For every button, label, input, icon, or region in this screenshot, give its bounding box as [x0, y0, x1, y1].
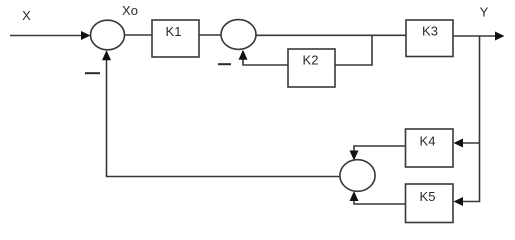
wire branch to K4 — [462, 142, 480, 144]
wire K1 to S2 — [199, 34, 221, 36]
wire input X — [10, 35, 81, 37]
arrowhead K4 into S3 — [350, 151, 359, 161]
wire S1 to K1 — [125, 34, 153, 36]
svg-text:X: X — [22, 8, 31, 23]
block K5 — [406, 184, 454, 223]
wire K5 to S3 — [354, 194, 406, 205]
wire tap to K2 — [335, 35, 372, 65]
svg-text:K1: K1 — [166, 24, 182, 39]
wire S3 to S1 feedback — [107, 53, 341, 177]
svg-text:Xo: Xo — [122, 3, 138, 18]
summing junction S3 — [340, 160, 375, 192]
arrowhead feedback into S1 — [102, 50, 111, 60]
arrowhead output Y — [495, 32, 505, 41]
block K3 — [406, 20, 453, 57]
summing junction S2 — [221, 20, 256, 50]
wire takeoff down to K5 — [462, 36, 480, 202]
svg-text:Y: Y — [480, 5, 489, 20]
wire K2 to S2 — [243, 52, 288, 65]
svg-text:K3: K3 — [422, 24, 438, 39]
arrowhead into S1 — [81, 31, 91, 40]
wire S2 to K3 — [256, 34, 406, 36]
block K4 — [406, 129, 454, 167]
arrowhead K2 into S2 — [239, 50, 248, 60]
minus sign at S2 — [218, 63, 231, 65]
summing junction S1 — [91, 20, 125, 50]
block K1 — [152, 20, 199, 57]
arrowhead into K4 — [454, 139, 464, 148]
wire K3 to output Y — [453, 35, 496, 37]
minus sign at S1 — [85, 72, 100, 74]
block K2 — [288, 49, 335, 87]
svg-text:K2: K2 — [303, 53, 319, 68]
svg-text:K5: K5 — [420, 189, 436, 204]
arrowhead into K5 — [454, 197, 464, 206]
wire K4 to S3 — [354, 146, 406, 158]
arrowhead K5 into S3 — [350, 191, 359, 201]
svg-text:K4: K4 — [420, 134, 436, 149]
